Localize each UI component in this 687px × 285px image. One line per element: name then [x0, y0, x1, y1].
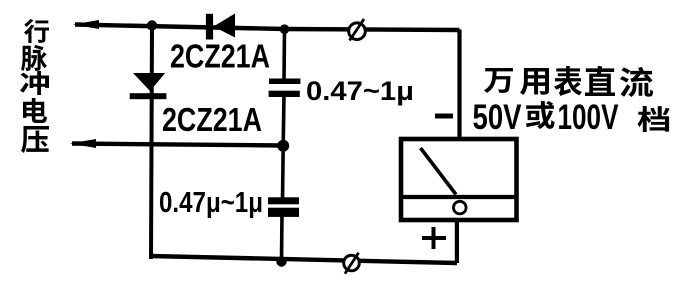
- node: junction dot bottom rail / C2 branch: [276, 256, 286, 266]
- node B: junction dot middle rail / capacitor branch: [277, 140, 289, 152]
- label: vertical input text "line pulse voltage": [20, 19, 49, 153]
- label: minus sign at meter negative terminal: [435, 114, 453, 119]
- label: "multimeter DC" text line 1: [484, 66, 653, 97]
- svg-text:2CZ21A: 2CZ21A: [170, 38, 270, 75]
- wire: top rail from input arrow to meter corner: [75, 25, 460, 31]
- wire: vertical branch through diode D2 (left): [151, 26, 152, 260]
- wire: capacitor C1 to node B: [281, 94, 285, 146]
- arrow: lower input terminal (points left): [70, 139, 96, 148]
- label: plus sign at meter positive terminal: [422, 227, 446, 249]
- wire: bottom rail: [151, 256, 457, 263]
- terminal: slashed-circle test point on bottom rail: [344, 253, 360, 274]
- meter M1: multimeter movement (box with needle and terminal circle): [401, 139, 517, 220]
- svg-text:0.47~1μ: 0.47~1μ: [306, 76, 414, 106]
- wire: meter top stub: [457, 30, 461, 142]
- svg-text:50V: 50V: [473, 98, 523, 137]
- node: junction dot top-left (top rail / D2 branch): [147, 20, 157, 30]
- node: junction dot top rail / C1 branch: [280, 24, 290, 34]
- arrow: upper input terminal (points left): [73, 20, 99, 29]
- wire: meter bottom stub: [455, 220, 459, 263]
- label: "or" and "range" characters in line 2: [526, 101, 670, 132]
- terminal: slashed-circle test point on top rail: [349, 19, 366, 41]
- diode D1 2CZ21A (horizontal, cathode bar left, triangle pointing left): [206, 14, 235, 40]
- wire: capacitor C2 to bottom rail: [280, 213, 284, 262]
- wire: right vertical branch, top rail to capacitor C1: [282, 29, 286, 82]
- svg-text:0.47μ~1μ: 0.47μ~1μ: [159, 187, 263, 219]
- svg-text:100V: 100V: [558, 98, 619, 137]
- svg-text:2CZ21A: 2CZ21A: [162, 101, 262, 138]
- capacitor C2 0.47u~1u (lower, two horizontal plates): [268, 197, 299, 217]
- wire: node B to capacitor C2: [281, 146, 285, 201]
- wire: middle rail from lower input arrow to node B: [72, 144, 283, 146]
- capacitor C1 0.47~1u (upper, two horizontal plates): [269, 79, 301, 98]
- diode D2 2CZ21A (vertical, triangle pointing down, cathode bar below): [130, 73, 167, 99]
